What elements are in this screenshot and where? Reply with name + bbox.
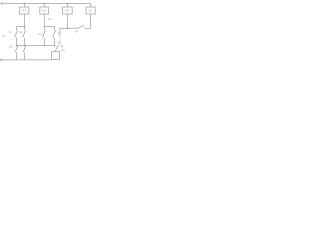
svg-text:(1): (1) (2, 33, 5, 37)
svg-text:K1: K1 (23, 9, 27, 13)
svg-text:(2): (2) (57, 41, 60, 45)
svg-text:K1: K1 (9, 30, 13, 34)
svg-text:K2: K2 (9, 44, 13, 48)
svg-text:K2: K2 (42, 9, 46, 13)
svg-text:K2: K2 (19, 30, 23, 34)
svg-text:M1: M1 (61, 48, 65, 52)
svg-text:K4: K4 (75, 29, 79, 33)
svg-text:K1: K1 (58, 31, 62, 35)
svg-text:K3: K3 (66, 9, 70, 13)
svg-text:D1: D1 (89, 9, 93, 13)
svg-text:M: M (61, 44, 63, 48)
svg-text:K3: K3 (39, 32, 43, 36)
svg-text:A1: A1 (48, 17, 52, 21)
